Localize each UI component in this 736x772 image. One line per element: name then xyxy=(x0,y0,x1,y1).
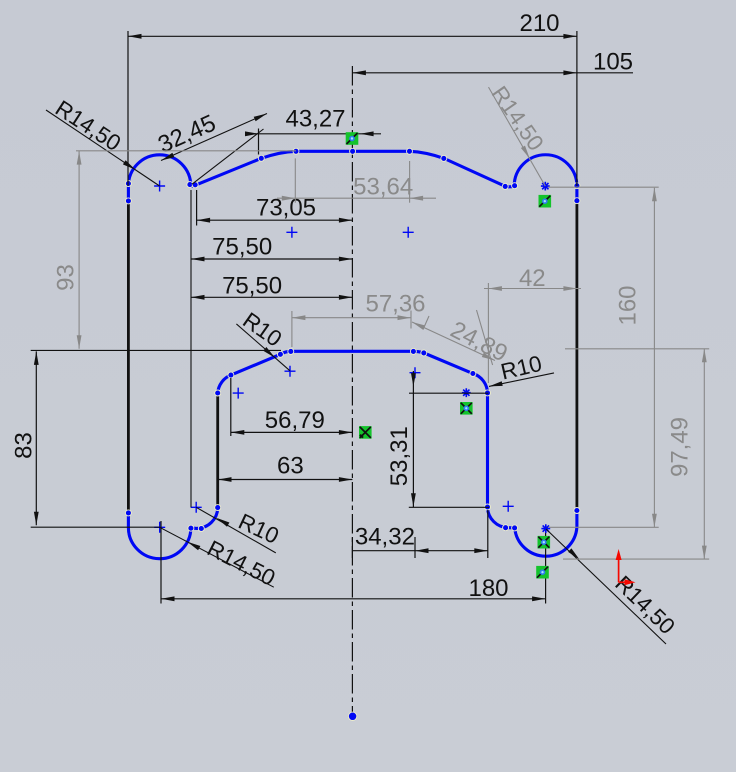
leader R14,50 bottom-left xyxy=(160,527,274,587)
dimension 42 extension line (grey) xyxy=(487,283,489,383)
outer left vertical line (black) xyxy=(127,201,130,513)
dimension 83 extension line top xyxy=(31,349,281,351)
dimension 210 line xyxy=(128,35,577,37)
dimension 34,32 extension tick at centreline xyxy=(351,537,353,558)
bottom-left arcs R14.50 and R10 (blue) xyxy=(128,508,217,559)
svg-text:57,36: 57,36 xyxy=(365,291,425,318)
relation icon bottom-right upper (coincident) xyxy=(538,536,551,549)
dimension 34,32 extension line mid xyxy=(414,537,416,558)
dimension 75,50 upper extension line (long, to R10 centre) xyxy=(190,190,192,507)
dimension 75,50 upper arrows xyxy=(191,257,205,262)
dimension 180 arrows xyxy=(161,596,175,601)
dimension 97,49 extension line bottom (grey) xyxy=(563,558,709,560)
leader R14,50 top-left xyxy=(46,110,160,186)
dimension 57,36 arrows (grey) xyxy=(292,315,306,320)
dimension 75,50 upper line xyxy=(191,258,352,260)
leader R14,50 top-right (grey) xyxy=(489,87,546,186)
dimension 83 line xyxy=(35,351,37,525)
dimension 24,89 arrows (grey) xyxy=(412,322,425,330)
dimension 32,45 line xyxy=(161,114,267,161)
dimension 32,45 arrows xyxy=(161,153,174,161)
svg-text:97,49: 97,49 xyxy=(667,417,694,477)
leader R10 right xyxy=(489,373,554,387)
dimension 24,89 line (grey) xyxy=(412,322,495,361)
svg-text:160: 160 xyxy=(615,285,642,325)
dimension 180 extension line left xyxy=(160,521,162,604)
relation icon right-middle (coincident) xyxy=(460,402,473,415)
dimension 97,49 arrows (grey) xyxy=(702,349,707,363)
svg-text:34,32: 34,32 xyxy=(355,524,415,551)
dimension 210 arrows xyxy=(128,34,142,39)
dimension 180 extension line right xyxy=(545,533,547,604)
dimension 73,05 arrows xyxy=(197,218,211,223)
outer top contour (blue sketch line) xyxy=(128,151,577,201)
dimension 24,89 extension ticks (grey) xyxy=(423,316,429,330)
dimension 53,31 arrows xyxy=(411,373,416,387)
dimension 56,79 arrows xyxy=(231,430,245,435)
dimension 53,31 line xyxy=(412,371,414,507)
centre mark of inner top-left R10 xyxy=(233,388,244,399)
dimension 93 extension line top (grey) xyxy=(76,150,296,152)
svg-text:75,50: 75,50 xyxy=(212,234,272,261)
inner left vertical line (black) xyxy=(216,393,219,508)
relation icon top-right (coincident) xyxy=(539,195,552,208)
dimension 63 line xyxy=(218,479,352,481)
svg-text:53,64: 53,64 xyxy=(353,174,413,201)
dimension 75,50 lower arrows xyxy=(191,295,205,300)
leader R10 bottom-left xyxy=(196,507,276,553)
dimension 53,31 extension line top xyxy=(409,392,488,394)
point at centre of inner top-right R10 (asterisk) xyxy=(462,388,471,397)
outer right vertical line (black) xyxy=(576,201,579,511)
dimension 97,49 extension line top (grey) xyxy=(565,348,709,350)
svg-text:180: 180 xyxy=(468,575,508,602)
dimension 34,32 line xyxy=(352,550,487,552)
centre mark of inner left fillet R10 xyxy=(285,366,296,377)
svg-text:43,27: 43,27 xyxy=(285,106,345,133)
centre mark of top-left fillet xyxy=(286,227,297,238)
dimension 93 line (grey) xyxy=(78,151,80,349)
dimension 210 extension line left xyxy=(127,31,129,186)
centre mark of top-left arc R14.50 xyxy=(154,181,165,192)
svg-text:53,31: 53,31 xyxy=(386,426,413,486)
dimension 34,32 arrows xyxy=(415,548,429,553)
dimension 160 extension line bottom (grey) xyxy=(548,526,659,528)
centre mark of top-right fillet xyxy=(403,227,414,238)
point at centre of top-right arc R14.50 (asterisk) xyxy=(541,182,550,191)
dimension 160 extension line top (grey) xyxy=(548,186,659,188)
svg-text:105: 105 xyxy=(593,49,633,76)
dimension 57,36 extension lines (grey) xyxy=(291,311,293,347)
sketch endpoints (blue dots) xyxy=(125,181,131,187)
dimension 53,64 line (grey) xyxy=(277,197,436,199)
relation icon bottom-right lower (coincident) xyxy=(536,566,549,579)
svg-text:56,79: 56,79 xyxy=(265,407,325,434)
svg-text:63: 63 xyxy=(277,453,304,480)
dimension 56,79 extension line xyxy=(230,378,232,436)
svg-text:93: 93 xyxy=(53,264,80,291)
svg-text:83: 83 xyxy=(11,432,38,459)
dimension 73,05 line xyxy=(197,219,353,221)
svg-text:75,50: 75,50 xyxy=(222,273,282,300)
bottom-right arcs R14.50 and R10 plus inner right side (blue) xyxy=(218,351,577,556)
dimension 53,64 arrows (grey) xyxy=(282,196,296,201)
centre mark of inner bottom-left R10 xyxy=(191,502,202,513)
dimension 93 arrows (grey) xyxy=(77,151,82,165)
dimension 97,49 line (grey) xyxy=(703,349,705,559)
dimension 42 arrows (grey) xyxy=(488,286,502,291)
endpoint of centerline xyxy=(348,712,356,720)
svg-text:42: 42 xyxy=(519,265,546,292)
dimension 83 extension line bottom xyxy=(31,526,160,528)
centerline (vertical construction axis) xyxy=(351,66,353,715)
centre mark of bottom-left arc R14.50 xyxy=(154,522,165,533)
leader R10 top-left xyxy=(236,324,290,371)
dimension 43,27 line xyxy=(246,133,381,135)
dimension 32,45 extension line xyxy=(192,129,264,184)
leader R14,50 bottom-right xyxy=(546,529,666,644)
centre mark of inner right fillet R10 xyxy=(410,367,421,378)
dimension 83 arrows xyxy=(34,351,39,365)
dimension 75,50 lower line xyxy=(191,296,352,298)
dimension 160 line (grey) xyxy=(653,188,655,528)
dimension 63 arrows xyxy=(218,477,232,482)
dimension 180 line xyxy=(161,598,546,600)
dimension 56,79 line xyxy=(231,431,353,433)
relation icon at centreline (intersection) xyxy=(359,426,372,439)
dimension 34,32 extension line right xyxy=(487,510,489,558)
dimension 53,31 extension line bottom xyxy=(409,506,489,508)
point at centre of bottom-right arc R14.50 (asterisk) xyxy=(541,524,550,533)
dimension 73,05 extension line xyxy=(196,190,198,226)
dimension 105 line xyxy=(352,72,633,74)
dimension 53,64 extension lines (grey) xyxy=(294,158,296,202)
dimension 160 arrows (grey) xyxy=(652,188,657,202)
relation icon at top centre (coincident) xyxy=(346,132,359,145)
sketch origin (red arrows) xyxy=(618,553,620,582)
dimension 43,27 extension line xyxy=(258,129,260,155)
dimension 210 extension line right / 105 right xyxy=(576,31,578,186)
dimension 105 arrows xyxy=(352,70,366,75)
dimension 42 line (grey) xyxy=(484,288,581,290)
dimension 57,36 line (grey) xyxy=(292,317,411,319)
centre mark of inner bottom-right R10 xyxy=(503,501,514,512)
dimension 43,27 arrows xyxy=(245,131,259,136)
svg-text:210: 210 xyxy=(519,10,559,37)
